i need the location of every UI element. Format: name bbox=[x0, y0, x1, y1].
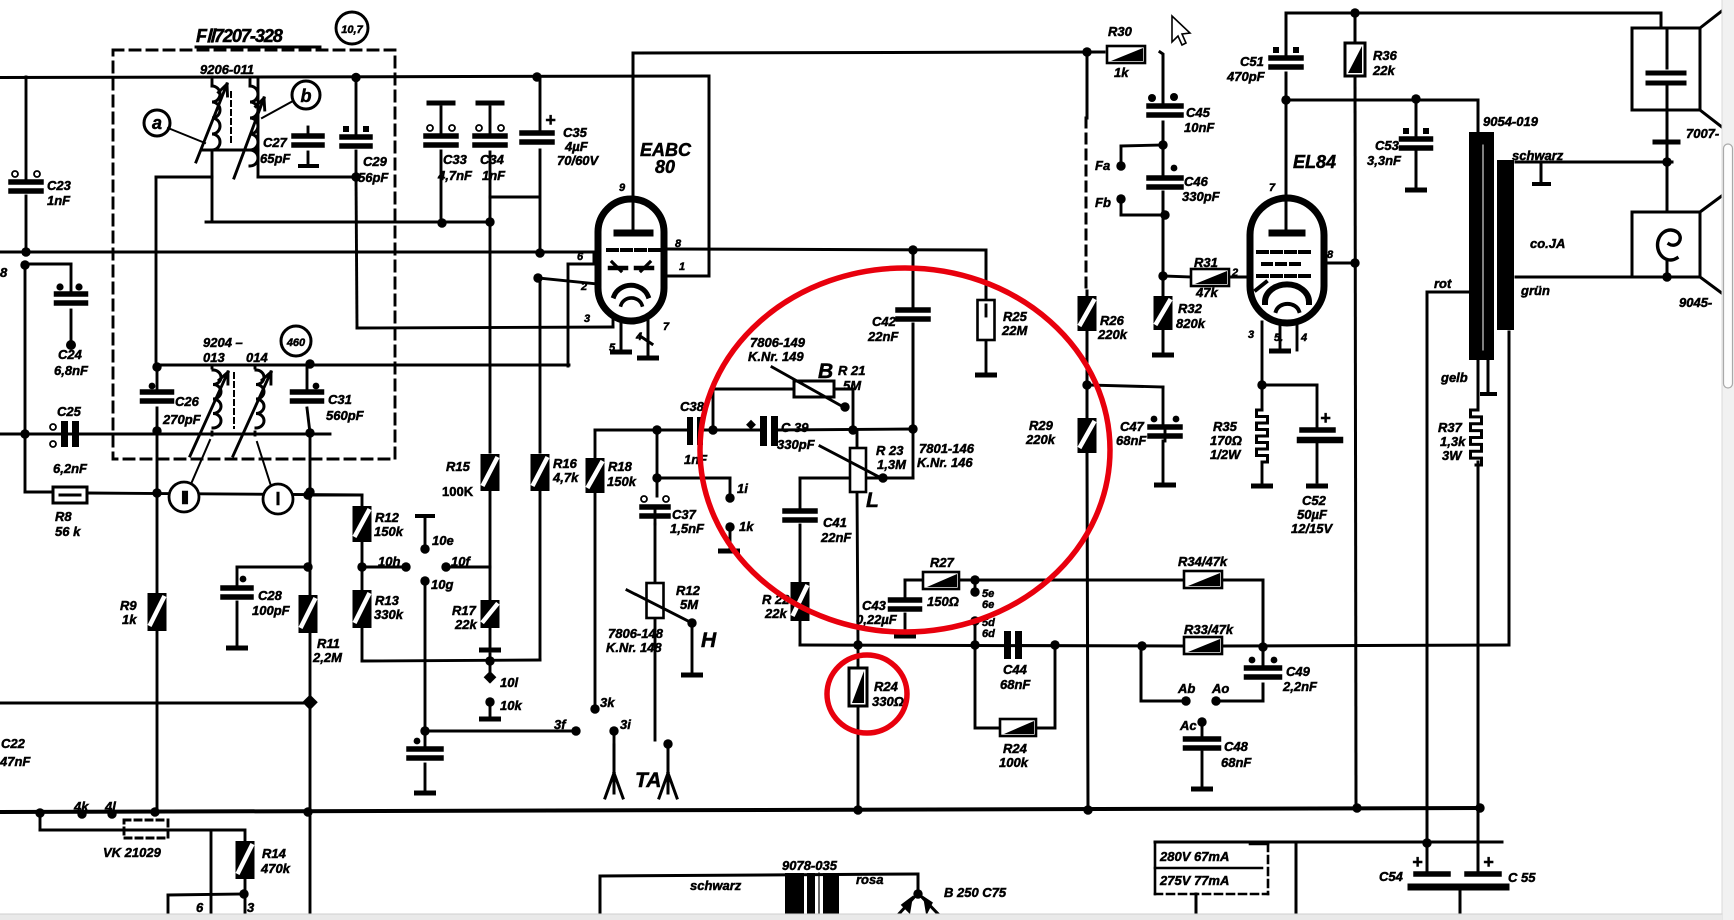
svg-text:68nF: 68nF bbox=[1116, 433, 1147, 448]
svg-text:10,7: 10,7 bbox=[341, 24, 363, 36]
svg-text:R35: R35 bbox=[1213, 419, 1238, 434]
svg-text:Ac: Ac bbox=[1179, 718, 1197, 733]
svg-text:7: 7 bbox=[1269, 182, 1276, 194]
svg-text:C29: C29 bbox=[363, 154, 388, 169]
svg-text:1: 1 bbox=[679, 261, 685, 273]
svg-text:4k: 4k bbox=[73, 799, 89, 814]
svg-text:3i: 3i bbox=[620, 717, 631, 732]
svg-text:1,3M: 1,3M bbox=[877, 457, 907, 472]
svg-text:1k: 1k bbox=[739, 519, 754, 534]
svg-text:9204 –: 9204 – bbox=[203, 335, 243, 350]
svg-text:R24: R24 bbox=[874, 679, 899, 694]
svg-text:56 k: 56 k bbox=[55, 524, 81, 539]
svg-text:4: 4 bbox=[1300, 332, 1307, 344]
svg-text:150k: 150k bbox=[374, 524, 404, 539]
svg-text:H: H bbox=[701, 629, 717, 652]
svg-text:100k: 100k bbox=[999, 755, 1029, 770]
svg-text:grün: grün bbox=[1520, 283, 1550, 298]
svg-text:330Ω: 330Ω bbox=[872, 694, 904, 709]
svg-text:R33/47k: R33/47k bbox=[1184, 622, 1234, 637]
svg-text:4,7k: 4,7k bbox=[552, 470, 579, 485]
svg-text:150Ω: 150Ω bbox=[927, 594, 959, 609]
svg-text:3W: 3W bbox=[1442, 448, 1463, 463]
svg-text:C22: C22 bbox=[1, 736, 26, 751]
svg-text:9054-019: 9054-019 bbox=[1483, 114, 1539, 129]
svg-text:R31: R31 bbox=[1194, 255, 1218, 270]
svg-text:6d: 6d bbox=[982, 628, 995, 640]
svg-text:C26: C26 bbox=[175, 394, 200, 409]
svg-text:R13: R13 bbox=[375, 593, 400, 608]
svg-text:L: L bbox=[866, 489, 879, 512]
svg-text:6,8nF: 6,8nF bbox=[54, 363, 89, 378]
svg-text:K.Nr. 149: K.Nr. 149 bbox=[748, 349, 804, 364]
svg-text:2,2M: 2,2M bbox=[312, 650, 343, 665]
svg-text:7806-149: 7806-149 bbox=[750, 335, 806, 350]
svg-text:C 39: C 39 bbox=[781, 420, 809, 435]
svg-text:6e: 6e bbox=[982, 599, 994, 611]
svg-text:1k: 1k bbox=[122, 612, 137, 627]
svg-text:R27: R27 bbox=[930, 555, 955, 570]
svg-text:EL84: EL84 bbox=[1293, 152, 1336, 172]
svg-text:C45: C45 bbox=[1186, 105, 1211, 120]
svg-text:4,7nF: 4,7nF bbox=[437, 168, 473, 183]
svg-text:12/15V: 12/15V bbox=[1291, 521, 1334, 536]
svg-text:330k: 330k bbox=[374, 607, 404, 622]
svg-text:5: 5 bbox=[609, 342, 616, 354]
svg-text:B: B bbox=[818, 360, 833, 383]
svg-text:68nF: 68nF bbox=[1221, 755, 1252, 770]
svg-text:4l: 4l bbox=[104, 799, 116, 814]
svg-text:C34: C34 bbox=[480, 152, 505, 167]
svg-text:R30: R30 bbox=[1108, 24, 1133, 39]
svg-text:7801-146: 7801-146 bbox=[919, 441, 975, 456]
svg-text:10e: 10e bbox=[432, 533, 454, 548]
svg-text:3: 3 bbox=[1248, 329, 1254, 341]
svg-text:560pF: 560pF bbox=[326, 408, 365, 423]
svg-text:+: + bbox=[545, 110, 556, 130]
svg-text:C33: C33 bbox=[443, 152, 468, 167]
svg-text:5M: 5M bbox=[680, 597, 699, 612]
svg-text:1i: 1i bbox=[737, 481, 748, 496]
svg-text:470pF: 470pF bbox=[1226, 69, 1266, 84]
svg-text:K.Nr. 148: K.Nr. 148 bbox=[606, 640, 662, 655]
svg-text:R32: R32 bbox=[1178, 301, 1203, 316]
svg-text:2: 2 bbox=[580, 281, 587, 293]
svg-text:R 21: R 21 bbox=[838, 363, 865, 378]
svg-text:Fb: Fb bbox=[1095, 195, 1111, 210]
svg-text:C53: C53 bbox=[1375, 138, 1400, 153]
svg-text:100K: 100K bbox=[442, 484, 474, 499]
svg-text:C52: C52 bbox=[1302, 493, 1327, 508]
svg-text:2,2nF: 2,2nF bbox=[1282, 679, 1318, 694]
svg-text:C51: C51 bbox=[1240, 54, 1264, 69]
svg-text:TA: TA bbox=[635, 769, 661, 792]
svg-text:R9: R9 bbox=[120, 598, 137, 613]
svg-text:K.Nr. 146: K.Nr. 146 bbox=[917, 455, 973, 470]
svg-text:C41: C41 bbox=[823, 515, 847, 530]
svg-text:4: 4 bbox=[635, 331, 642, 343]
svg-text:1nF: 1nF bbox=[482, 168, 506, 183]
svg-text:7007-: 7007- bbox=[1686, 126, 1719, 141]
svg-text:220k: 220k bbox=[1097, 327, 1128, 342]
svg-text:2: 2 bbox=[1231, 267, 1238, 279]
svg-text:R12: R12 bbox=[676, 583, 701, 598]
svg-text:3,3nF: 3,3nF bbox=[1367, 153, 1402, 168]
svg-text:5M: 5M bbox=[843, 378, 862, 393]
svg-text:R37: R37 bbox=[1438, 420, 1463, 435]
svg-text:C25: C25 bbox=[57, 404, 82, 419]
svg-text:R16: R16 bbox=[553, 456, 578, 471]
svg-text:5.: 5. bbox=[1274, 332, 1283, 344]
svg-text:C54: C54 bbox=[1379, 869, 1404, 884]
svg-text:22nF: 22nF bbox=[867, 329, 899, 344]
svg-text:3k: 3k bbox=[600, 695, 615, 710]
svg-text:C47: C47 bbox=[1120, 419, 1145, 434]
svg-text:C35: C35 bbox=[563, 125, 588, 140]
svg-text:47k: 47k bbox=[1195, 285, 1218, 300]
svg-text:8: 8 bbox=[0, 265, 8, 280]
svg-text:47nF: 47nF bbox=[0, 754, 31, 769]
svg-text:270pF: 270pF bbox=[162, 412, 202, 427]
svg-text:22k: 22k bbox=[1372, 63, 1395, 78]
svg-text:65pF: 65pF bbox=[260, 151, 291, 166]
svg-text:R18: R18 bbox=[608, 459, 633, 474]
svg-text:co.JA: co.JA bbox=[1530, 236, 1565, 251]
svg-text:C38: C38 bbox=[680, 399, 705, 414]
svg-text:9078-035: 9078-035 bbox=[782, 858, 838, 873]
svg-text:3: 3 bbox=[584, 313, 590, 325]
svg-text:7806-148: 7806-148 bbox=[608, 626, 664, 641]
svg-text:70/60V: 70/60V bbox=[557, 153, 600, 168]
svg-text:B 250 C75: B 250 C75 bbox=[944, 885, 1007, 900]
svg-text:10g: 10g bbox=[431, 577, 453, 592]
svg-text:014: 014 bbox=[246, 350, 268, 365]
svg-text:a: a bbox=[152, 113, 162, 133]
svg-text:3: 3 bbox=[247, 900, 255, 915]
svg-text:C24: C24 bbox=[58, 347, 83, 362]
svg-text:rot: rot bbox=[1434, 276, 1452, 291]
svg-text:0,22µF: 0,22µF bbox=[856, 612, 898, 627]
svg-text:R29: R29 bbox=[1029, 418, 1054, 433]
svg-text:1nF: 1nF bbox=[47, 193, 71, 208]
svg-text:rosa: rosa bbox=[856, 872, 883, 887]
svg-text:6: 6 bbox=[577, 251, 584, 263]
svg-text:820k: 820k bbox=[1176, 316, 1206, 331]
svg-text:R26: R26 bbox=[1100, 313, 1125, 328]
svg-text:C43: C43 bbox=[862, 598, 887, 613]
svg-text:470k: 470k bbox=[260, 861, 291, 876]
svg-text:7: 7 bbox=[663, 321, 670, 333]
svg-text:80: 80 bbox=[655, 157, 675, 177]
svg-text:22nF: 22nF bbox=[820, 530, 852, 545]
svg-text:1,5nF: 1,5nF bbox=[670, 521, 705, 536]
svg-text:9045-: 9045- bbox=[1679, 295, 1712, 310]
svg-text:VK 21029: VK 21029 bbox=[103, 845, 162, 860]
svg-text:330pF: 330pF bbox=[777, 437, 816, 452]
svg-text:+: + bbox=[1483, 852, 1494, 872]
svg-text:C31: C31 bbox=[328, 392, 352, 407]
svg-text:C 55: C 55 bbox=[1508, 870, 1536, 885]
svg-text:Ao: Ao bbox=[1211, 681, 1229, 696]
svg-text:8: 8 bbox=[675, 238, 682, 250]
svg-text:22k: 22k bbox=[764, 606, 787, 621]
svg-text:C46: C46 bbox=[1184, 174, 1209, 189]
svg-text:460: 460 bbox=[286, 337, 306, 349]
svg-text:68nF: 68nF bbox=[1000, 677, 1031, 692]
svg-text:280V 67mA: 280V 67mA bbox=[1159, 849, 1229, 864]
svg-text:R24: R24 bbox=[1003, 741, 1028, 756]
svg-text:1,3k: 1,3k bbox=[1440, 434, 1466, 449]
svg-text:22k: 22k bbox=[454, 617, 477, 632]
svg-text:I: I bbox=[275, 489, 280, 509]
svg-text:275V 77mA: 275V 77mA bbox=[1159, 873, 1229, 888]
svg-text:FⅡ7207-328: FⅡ7207-328 bbox=[196, 26, 283, 46]
svg-text:10h: 10h bbox=[378, 554, 400, 569]
svg-text:Ab: Ab bbox=[1177, 681, 1195, 696]
svg-text:R8: R8 bbox=[55, 509, 72, 524]
svg-text:R34/47k: R34/47k bbox=[1178, 554, 1228, 569]
svg-text:C49: C49 bbox=[1286, 664, 1311, 679]
svg-text:C42: C42 bbox=[872, 314, 897, 329]
svg-text:b: b bbox=[301, 86, 312, 106]
svg-text:150k: 150k bbox=[607, 474, 637, 489]
svg-text:R15: R15 bbox=[446, 459, 471, 474]
svg-text:1nF: 1nF bbox=[684, 452, 708, 467]
svg-text:C44: C44 bbox=[1003, 662, 1028, 677]
svg-text:schwarz: schwarz bbox=[690, 878, 742, 893]
svg-text:R12: R12 bbox=[375, 510, 400, 525]
svg-text:170Ω: 170Ω bbox=[1210, 433, 1242, 448]
svg-text:50µF: 50µF bbox=[1297, 507, 1328, 522]
svg-text:C37: C37 bbox=[672, 507, 697, 522]
svg-text:9: 9 bbox=[619, 182, 626, 194]
svg-text:10nF: 10nF bbox=[1184, 120, 1215, 135]
svg-text:gelb: gelb bbox=[1440, 370, 1468, 385]
svg-text:+: + bbox=[1412, 852, 1423, 872]
svg-text:10l: 10l bbox=[500, 675, 518, 690]
svg-text:220k: 220k bbox=[1025, 432, 1056, 447]
svg-text:9206-011: 9206-011 bbox=[200, 62, 254, 77]
svg-text:+: + bbox=[1320, 408, 1331, 428]
svg-text:100pF: 100pF bbox=[252, 603, 291, 618]
svg-text:R36: R36 bbox=[1373, 48, 1398, 63]
svg-text:1/2W: 1/2W bbox=[1210, 447, 1242, 462]
svg-text:C28: C28 bbox=[258, 588, 283, 603]
svg-text:4µF: 4µF bbox=[564, 139, 589, 154]
svg-text:Fa: Fa bbox=[1095, 158, 1110, 173]
svg-text:56pF: 56pF bbox=[358, 170, 389, 185]
svg-text:schwarz: schwarz bbox=[1512, 148, 1564, 163]
svg-text:C27: C27 bbox=[263, 135, 288, 150]
svg-text:R14: R14 bbox=[262, 846, 287, 861]
svg-text:R11: R11 bbox=[317, 636, 340, 651]
svg-text:1k: 1k bbox=[1114, 65, 1129, 80]
svg-text:C48: C48 bbox=[1224, 739, 1249, 754]
svg-text:II: II bbox=[181, 488, 188, 508]
svg-text:R 23: R 23 bbox=[876, 443, 904, 458]
svg-text:330pF: 330pF bbox=[1182, 189, 1221, 204]
svg-text:8: 8 bbox=[1327, 249, 1334, 261]
svg-text:C23: C23 bbox=[47, 178, 72, 193]
svg-text:R17: R17 bbox=[452, 603, 477, 618]
svg-text:013: 013 bbox=[203, 350, 225, 365]
svg-text:6: 6 bbox=[196, 900, 204, 915]
svg-text:22M: 22M bbox=[1001, 323, 1028, 338]
svg-text:6,2nF: 6,2nF bbox=[53, 461, 88, 476]
svg-text:3f: 3f bbox=[554, 717, 567, 732]
svg-text:10k: 10k bbox=[500, 698, 522, 713]
svg-text:10f: 10f bbox=[451, 554, 471, 569]
svg-text:R25: R25 bbox=[1003, 309, 1028, 324]
